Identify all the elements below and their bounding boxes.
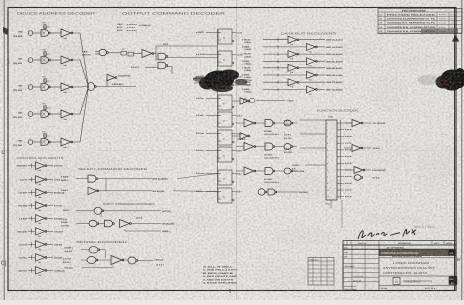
FF4 output bubble	[232, 106, 234, 108]
wire CB5 output	[47, 217, 53, 219]
wire CB1 output	[47, 165, 53, 167]
wire register to cluster M3	[236, 170, 244, 172]
wire DB04 output	[299, 67, 326, 69]
NAND gate U13	[158, 53, 166, 60]
wire M4 output	[277, 191, 298, 193]
wire AB3 to address junction	[73, 87, 89, 115]
FF2 output bubble	[232, 62, 234, 64]
decoder output tap 8	[337, 176, 344, 178]
label A-B 4	[232, 115, 236, 117]
function buffer F2	[352, 145, 361, 152]
wire DB05 output	[317, 74, 325, 76]
NAND gate U33	[76, 223, 89, 225]
wire F3 out	[365, 169, 372, 171]
wire CB6 output	[47, 230, 53, 232]
wire register to cluster M1	[236, 122, 244, 124]
revision stamp blot	[421, 29, 458, 34]
decoder output tap 2	[337, 135, 344, 137]
decoder output tap 10	[337, 189, 344, 191]
ink smudge over register column	[193, 70, 248, 93]
register input bus	[217, 29, 219, 202]
wire M1 output	[293, 122, 297, 124]
wire WR2 tap	[153, 53, 156, 55]
wire branch to DADR buffer	[106, 78, 108, 87]
pull-up resistor R3 +5V	[44, 79, 46, 85]
flip-flop FF6	[218, 130, 232, 145]
wire M2 output	[293, 146, 297, 148]
NAND gate U14	[158, 62, 166, 69]
wire FF8 input	[206, 173, 218, 175]
flip-flop FF2	[218, 51, 232, 66]
buffer U21	[240, 133, 248, 140]
label E-B A	[232, 150, 236, 152]
wire U36 down	[100, 250, 106, 258]
right margin arrow marker	[452, 36, 460, 42]
inverter AB4b	[50, 141, 61, 143]
pull-up resistor R4 +5V	[44, 106, 46, 112]
decoder output tap 6	[337, 162, 344, 164]
buffer U20	[240, 98, 248, 105]
inverter AB0b	[50, 32, 61, 34]
NAND gate AB3a	[41, 111, 49, 118]
flip-flop FF4	[218, 95, 232, 110]
wire AB2 to address junction	[73, 86, 89, 89]
pull-up resistor R5 +5V	[44, 134, 46, 140]
decoder output tap 9	[337, 182, 344, 184]
left sheet edge line	[3, 0, 5, 300]
FF3 output bubble	[232, 84, 234, 86]
NOR gate U11	[99, 49, 107, 56]
NAND gate M1b	[255, 122, 265, 124]
wire CB3 output	[47, 192, 53, 194]
FF8 output bubble	[232, 181, 234, 183]
NOR gate M1c	[275, 122, 284, 124]
wire delay to buffer U12	[134, 53, 143, 55]
fold tick marks bottom border	[119, 289, 121, 292]
flip-flop FF3	[218, 73, 232, 88]
left margin zone mark D	[3, 27, 8, 35]
FF6 output bubble	[232, 141, 234, 143]
NAND gate AB4a	[41, 139, 49, 146]
wire AB1 to address junction	[73, 60, 89, 87]
pull-up resistor R2 +5V	[44, 52, 46, 58]
FF9 output bubble	[232, 199, 234, 201]
decoder output tap 7	[337, 169, 344, 171]
NAND gate AB2a	[41, 84, 49, 91]
function decoder matrix box U40	[326, 120, 337, 200]
label p C-B	[232, 32, 236, 34]
company band COMPUTER AUTOMATION INC	[379, 249, 456, 255]
NAND gate M3b	[255, 170, 265, 172]
wire CB4 output	[47, 205, 53, 207]
wire U14 output down	[167, 67, 172, 75]
wire DADR output	[96, 86, 137, 88]
NAND gate AB0a	[41, 30, 49, 37]
title block outer box	[343, 245, 456, 291]
wire select out	[98, 178, 152, 180]
wire FF3 input	[206, 76, 218, 78]
size letter D cell	[393, 278, 400, 285]
wire +7 BUS	[243, 99, 247, 103]
company logo square	[449, 250, 456, 255]
label B-B 7	[232, 191, 236, 193]
buffer U35	[120, 220, 130, 228]
fold tick marks top border	[119, 6, 121, 9]
wire FF9 input	[206, 191, 218, 193]
wire FF4 input	[206, 98, 218, 100]
wire DB00 output	[299, 39, 326, 41]
NAND gate U30	[76, 178, 88, 180]
NAND gate U34	[105, 220, 113, 227]
wire select junction down	[105, 179, 107, 191]
wire U13 output to register column	[167, 57, 218, 59]
rev cell	[449, 277, 457, 285]
decoder output tap 5	[337, 156, 344, 158]
wire AB4 to address junction	[73, 87, 89, 143]
inverter AB3b	[50, 113, 61, 115]
wire DB02 output	[299, 53, 326, 55]
wire DB03 output	[317, 60, 325, 62]
handwritten signature K Olein D135	[358, 231, 400, 239]
right outer border line	[461, 0, 463, 300]
wire decoder enable down	[330, 200, 332, 208]
decoder output tap 1	[337, 129, 344, 131]
wire function inputs	[300, 119, 326, 121]
NAND gate U39	[128, 257, 136, 264]
buffer U12	[142, 50, 152, 58]
vertical fold crease	[236, 0, 238, 300]
wire select feed to registers	[177, 174, 218, 179]
inverter M3a	[244, 167, 254, 175]
bottom border center tick	[229, 289, 231, 293]
wire FF6 input	[206, 133, 218, 135]
function buffer F3	[354, 167, 363, 174]
inverter M1a	[244, 119, 254, 127]
wire FF1 input	[206, 32, 218, 34]
wire F1 out	[363, 122, 372, 124]
border dirt specks	[8, 60, 264, 291]
flip-flop FF9	[218, 188, 232, 203]
inverter DADR E	[107, 74, 115, 81]
drawn-checked grid	[343, 245, 379, 291]
function gate F4	[354, 175, 361, 181]
wire F2 out	[363, 147, 372, 149]
ink smudge streaks	[193, 78, 252, 85]
wire sense output	[123, 259, 128, 261]
wire DB01 output	[317, 46, 325, 48]
decoder output bus line	[340, 120, 342, 199]
NAND gate AB1a	[41, 57, 49, 64]
NOR gate U32	[76, 210, 94, 212]
wire input cmd interconnect	[99, 223, 105, 225]
right inner border line	[454, 8, 456, 291]
wire FF2 input	[206, 54, 218, 56]
inverter AB2b	[50, 86, 61, 88]
NAND gate M4	[258, 189, 265, 196]
wire CB2 output	[47, 179, 53, 181]
label E-B 4	[232, 133, 236, 135]
pull-up resistor R1 +5V	[44, 25, 46, 31]
wire FF7 input	[206, 150, 218, 152]
FF1 output bubble	[232, 40, 234, 42]
decoder output tap 11	[337, 196, 344, 198]
revision table	[378, 9, 462, 34]
horizontal crease	[0, 150, 464, 152]
address NAND junction gate U10	[88, 83, 95, 91]
wire M3 output	[293, 170, 297, 172]
NAND gate U36	[81, 249, 89, 251]
wire register taps	[232, 100, 240, 102]
wire CB8 output	[47, 256, 53, 258]
qty reqd table	[308, 258, 334, 286]
flip-flop FF7	[218, 147, 232, 162]
parts list table	[343, 241, 456, 250]
wire AB0 to address junction	[73, 33, 89, 87]
NOR gate M2c	[275, 146, 284, 148]
function buffer F1	[352, 120, 361, 127]
decoder output tap 4	[337, 149, 344, 151]
FF7 output bubble	[232, 158, 234, 160]
division strip	[379, 257, 456, 259]
label B-B A	[232, 173, 236, 175]
delay element TLT1	[121, 51, 127, 55]
NAND gate U37	[81, 259, 87, 261]
ink smudge right border	[418, 68, 464, 91]
wire CB7 output	[47, 243, 53, 245]
OR gate U38	[97, 259, 111, 261]
NAND gate M2b	[255, 146, 265, 148]
wire U11 to delay	[109, 52, 122, 54]
wire third output WRB	[125, 229, 161, 231]
delay element TLT2	[128, 52, 134, 56]
title block divider	[379, 275, 456, 277]
buffer U31	[88, 187, 97, 195]
label a C-B	[232, 76, 236, 78]
scale row	[379, 285, 456, 287]
wire FF5 input	[206, 115, 218, 117]
decoder output tap 0	[337, 122, 344, 124]
wire WRTB output	[131, 223, 161, 225]
wire U32 output WRT	[104, 210, 161, 212]
inverter AB1b	[50, 59, 61, 61]
wire WR2 to register column	[156, 45, 218, 47]
flip-flop FF1	[218, 29, 232, 44]
NOR gate M3c	[275, 170, 284, 172]
wire DB06 output	[299, 81, 326, 83]
inverter M2a	[244, 143, 254, 151]
wire matrix to buffers	[344, 122, 352, 124]
wire qty table to title block	[334, 284, 456, 286]
wire DB07 output	[317, 88, 325, 90]
FF5 output bubble	[232, 123, 234, 125]
flip-flop FF5	[218, 112, 232, 127]
label p-C-B	[232, 54, 236, 56]
decoder output tap 3	[337, 142, 344, 144]
wire CB9 output	[47, 269, 53, 271]
wire register to cluster M2	[236, 146, 244, 148]
flip-flop FF8	[218, 170, 232, 185]
